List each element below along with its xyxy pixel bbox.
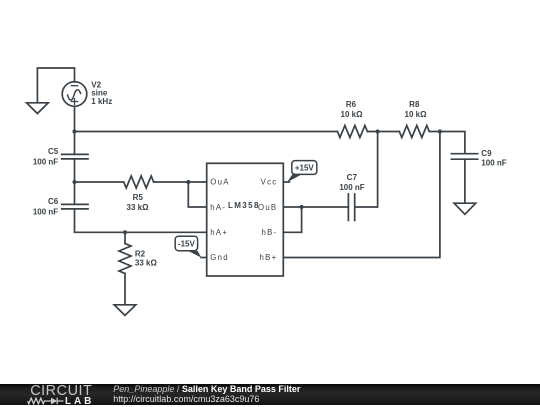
C7 labels: [339, 173, 364, 192]
svg-text:OuB: OuB: [258, 203, 277, 212]
+15V supply flag: [287, 161, 317, 183]
CircuitLab logo resistor-diode glyph: [27, 397, 65, 405]
svg-text:100 nF: 100 nF: [339, 183, 364, 192]
svg-text:100 nF: 100 nF: [33, 207, 58, 216]
svg-text:hA-: hA-: [210, 203, 226, 212]
svg-text:100 nF: 100 nF: [33, 157, 58, 166]
svg-text:33 kΩ: 33 kΩ: [127, 203, 150, 212]
wire C7 to R6/R8 node: [355, 132, 378, 208]
svg-text:R6: R6: [346, 100, 357, 109]
resistor R6: [337, 126, 367, 138]
resistor R5: [124, 176, 154, 188]
node junction R8 output: [438, 129, 442, 133]
wire V2 top to ground: [37, 68, 74, 103]
R2 labels: [135, 250, 158, 268]
svg-text:R5: R5: [133, 193, 144, 202]
wire node A to R5: [75, 181, 124, 183]
svg-text:R2: R2: [135, 250, 146, 259]
svg-text:1 kHz: 1 kHz: [91, 97, 112, 106]
svg-text:Vcc: Vcc: [261, 177, 278, 186]
svg-text:100 nF: 100 nF: [481, 159, 506, 168]
wire Gnd stub: [201, 257, 207, 259]
op-amp U1 LM358 body: [207, 163, 284, 276]
wire C5 top lead: [74, 132, 76, 155]
svg-text:C5: C5: [48, 147, 59, 156]
wire C6 to op-amp InA+: [75, 209, 207, 232]
ground (below R2): [114, 305, 136, 316]
svg-text:hA+: hA+: [210, 228, 228, 237]
wire R8 to C9: [429, 132, 465, 154]
node junction V2/top net: [72, 129, 76, 133]
svg-text:hB+: hB+: [260, 253, 278, 262]
node junction R6/R8/C7: [376, 129, 380, 133]
capacitor C9: [451, 154, 477, 203]
V2 value labels: [91, 81, 112, 106]
R6 labels: [341, 100, 364, 119]
svg-text:LM358: LM358: [228, 201, 260, 210]
capacitor C5: [62, 154, 88, 159]
svg-text:10 kΩ: 10 kΩ: [341, 110, 364, 119]
node junction OutB: [300, 205, 304, 209]
svg-text:C6: C6: [48, 197, 59, 206]
wire InB+ feedback to output node: [283, 132, 440, 258]
C6 labels: [33, 197, 59, 216]
svg-text:10 kΩ: 10 kΩ: [405, 110, 428, 119]
capacitor C7: [348, 194, 354, 220]
C5 labels: [33, 147, 59, 166]
svg-text:hB-: hB-: [262, 228, 278, 237]
wire R2 top lead: [124, 232, 126, 243]
svg-text:C9: C9: [481, 149, 492, 158]
node junction A (C5/R5/C6): [72, 180, 76, 184]
R8 labels: [405, 100, 428, 119]
svg-text:+15V: +15V: [295, 164, 315, 173]
footer url line: [113, 395, 259, 404]
wire C5 to node A: [74, 159, 76, 182]
svg-text:R8: R8: [409, 100, 420, 109]
wire Vcc stub: [283, 181, 289, 183]
node junction R2/InA+: [123, 230, 127, 234]
CircuitLab logo wordmark CIRCUIT: [30, 384, 92, 398]
svg-text:-15V: -15V: [178, 240, 196, 249]
-15V supply flag: [175, 236, 201, 258]
wire R2 bottom lead: [124, 274, 126, 305]
wire OutB node to InB-: [283, 207, 301, 232]
wire OutB to C7: [283, 206, 348, 208]
svg-text:Gnd: Gnd: [210, 253, 229, 262]
svg-text:OuA: OuA: [210, 177, 229, 186]
voltage source V2: [62, 82, 87, 107]
svg-text:33 kΩ: 33 kΩ: [135, 259, 158, 268]
R5 labels: [127, 193, 150, 212]
CircuitLab logo wordmark LAB: [65, 397, 94, 406]
svg-text:C7: C7: [347, 173, 358, 182]
node junction R5/OutA/InA-: [186, 180, 190, 184]
footer title line: [113, 385, 300, 394]
wire top net to R6: [75, 131, 338, 133]
wire V2 bottom lead: [74, 106, 76, 131]
wire R5 to op-amp OutA: [154, 181, 207, 183]
C9 labels: [481, 149, 506, 168]
capacitor C6: [62, 204, 88, 209]
wire node A to C6: [74, 182, 76, 204]
ground (below C9): [454, 203, 476, 214]
wire R6 to R8: [367, 131, 399, 133]
wire feedback OutA to InA-: [188, 182, 206, 207]
resistor R2: [119, 244, 131, 274]
resistor R8: [399, 126, 429, 138]
footer bar: [0, 384, 540, 405]
ground (top-left): [27, 103, 49, 114]
